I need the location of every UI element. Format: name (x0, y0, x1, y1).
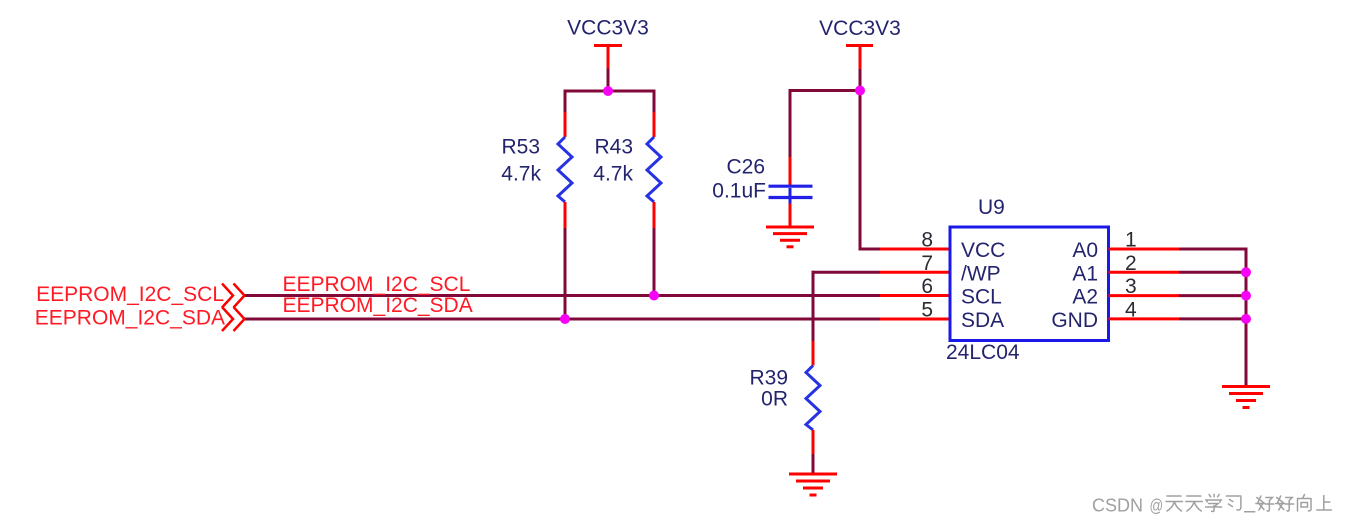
svg-text:A2: A2 (1072, 286, 1098, 309)
wire /WP net from pin 7 to R39 (812, 271, 951, 366)
wire pin 4 (GND) (1109, 317, 1247, 320)
wire VCC branch to C26 (789, 89, 861, 92)
IC U9 body (950, 227, 1109, 341)
svg-text:@: @ (1150, 497, 1164, 516)
wire R53 top (564, 91, 567, 137)
wire VCC3V3 down to pin 8 (859, 91, 951, 251)
wire ground rail vertical (1245, 248, 1248, 387)
svg-text:VCC3V3: VCC3V3 (819, 17, 901, 40)
svg-text:24LC04: 24LC04 (946, 341, 1020, 364)
svg-text:0.1uF: 0.1uF (712, 180, 766, 203)
svg-text:0R: 0R (761, 388, 788, 411)
svg-text:4.7k: 4.7k (593, 163, 633, 186)
svg-text:C26: C26 (726, 156, 765, 179)
node VCC3V3 junction (left) (603, 86, 613, 96)
svg-text:EEPROM_I2C_SCL: EEPROM_I2C_SCL (36, 283, 224, 306)
watermark CJK glyphs (1166, 494, 1331, 512)
svg-text:SCL: SCL (961, 286, 1002, 309)
svg-text:7: 7 (921, 252, 933, 275)
svg-text:R53: R53 (501, 136, 540, 159)
ground (C26) (766, 227, 814, 247)
wire pin 3 (A2) (1109, 294, 1247, 297)
svg-text:A0: A0 (1072, 239, 1098, 262)
svg-text:8: 8 (921, 229, 933, 252)
svg-text:5: 5 (921, 298, 933, 321)
svg-text:4.7k: 4.7k (501, 163, 541, 186)
node GND junction (1241, 314, 1251, 324)
wire C26 bottom (789, 204, 792, 228)
power symbol VCC3V3 (left) (567, 17, 649, 92)
capacitor C26 (769, 186, 813, 203)
ground (R39) (789, 474, 837, 495)
port EEPROM_I2C_SDA (35, 307, 245, 332)
svg-text:EEPROM_I2C_SCL: EEPROM_I2C_SCL (283, 273, 471, 296)
ground (right rail) (1222, 387, 1270, 408)
svg-text:GND: GND (1051, 309, 1098, 332)
node VCC3V3 junction (right) (855, 86, 865, 96)
svg-text:R43: R43 (594, 136, 633, 159)
wire R43 top (653, 91, 656, 137)
resistor R43 (647, 137, 661, 202)
wire R53 bottom to SDA (564, 202, 567, 319)
wire pin 1 (A0) to ground rail (1109, 248, 1248, 251)
svg-text:CSDN: CSDN (1092, 496, 1143, 516)
svg-text:6: 6 (921, 275, 933, 298)
svg-text:SDA: SDA (961, 309, 1004, 332)
watermark CSDN (1092, 496, 1163, 517)
node R53/SDA junction (560, 314, 570, 324)
node A1 junction (1241, 267, 1251, 277)
node A2 junction (1241, 291, 1251, 301)
svg-text:VCC3V3: VCC3V3 (567, 17, 649, 40)
svg-text:VCC: VCC (961, 239, 1005, 262)
svg-text:U9: U9 (978, 196, 1005, 219)
node R43/SCL junction (649, 291, 659, 301)
wire R39 bottom (812, 430, 815, 474)
svg-text:A1: A1 (1072, 262, 1098, 285)
power symbol VCC3V3 (right) (819, 17, 901, 91)
wire SCL net (245, 294, 950, 297)
svg-text:/WP: /WP (961, 262, 1001, 285)
svg-text:R39: R39 (749, 367, 788, 390)
wire SDA net (245, 318, 950, 321)
resistor R53 (558, 137, 572, 202)
svg-text:EEPROM_I2C_SDA: EEPROM_I2C_SDA (35, 307, 225, 330)
port EEPROM_I2C_SCL (36, 283, 244, 308)
svg-text:EEPROM_I2C_SDA: EEPROM_I2C_SDA (283, 294, 473, 317)
wire C26 top (789, 89, 792, 186)
wire top rail between R53 and R43 (564, 90, 656, 93)
resistor R39 (806, 366, 820, 431)
wire R43 bottom to SCL (653, 202, 656, 296)
wire pin 2 (A1) (1109, 271, 1247, 274)
